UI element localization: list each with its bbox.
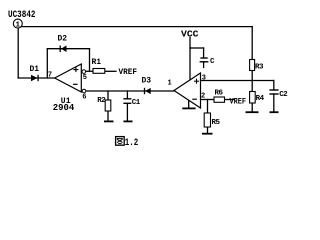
resistor R6 [214,89,225,102]
svg-text:R4: R4 [256,95,265,103]
wire R5 bottom stub [207,127,209,134]
op-amp U1 triangle [55,64,82,92]
wire C2 bottom stub [273,94,275,112]
ground for R4 [246,111,259,113]
resistor R4 [250,92,265,104]
wire top rail VCC [18,26,252,28]
wire C bottom stub [203,62,205,68]
resistor R5 [204,113,220,127]
wire R3 to pin3 net and R4 [251,71,253,92]
svg-text:C: C [210,58,215,66]
wire C1 top stub [126,91,128,99]
wire C1 bottom stub [126,103,128,120]
wire right vertical rail to R3 [251,27,253,60]
svg-text:3: 3 [202,74,206,82]
resistor R1 [92,58,105,74]
svg-text:R6: R6 [215,89,224,97]
wire feedback top horizontal [47,48,89,50]
svg-text:VREF: VREF [119,67,138,77]
wire D1 input segment [18,77,55,79]
wire R5 top stub [207,100,209,114]
ground for C2 [270,111,279,113]
svg-text:VREF: VREF [230,97,247,106]
svg-text:D1: D1 [30,65,40,74]
capacitor C1 [123,99,140,107]
ground for C1 [124,120,133,122]
svg-text:R5: R5 [212,119,221,127]
wire pin5 to R1 [86,70,93,72]
wire VCC vertical to opamp2 [189,38,191,81]
svg-text:5: 5 [83,74,87,82]
svg-text:R1: R1 [92,58,102,67]
wire feedback right vertical [89,49,91,72]
svg-text:R3: R3 [255,63,264,71]
svg-text:D2: D2 [58,34,68,43]
resistor R2 [97,97,110,111]
svg-text:2: 2 [201,92,205,100]
wire R6 to VREF [225,99,235,101]
svg-text:2904: 2904 [53,103,75,113]
caption figure 1.2 chinese character tu [116,137,125,146]
wire R2 top stub [107,91,109,100]
svg-text:C1: C1 [132,99,141,107]
svg-text:1.2: 1.2 [125,138,139,149]
svg-text:UC3842: UC3842 [8,10,36,21]
wire R2 bottom stub [107,111,109,121]
wire opamp2 VEE stub [188,100,190,108]
ground for R5 [202,133,213,135]
capacitor C [200,58,215,66]
svg-text:6: 6 [82,94,86,102]
wire C2 top stub [273,81,275,91]
wire C branch horizontal [190,47,204,49]
label U1 2904 [53,97,75,113]
svg-text:1: 1 [168,80,172,88]
diode D1 [30,65,40,81]
svg-text:R2: R2 [97,97,106,105]
svg-text:7: 7 [48,72,52,80]
resistor R3 [250,60,264,72]
ground for R2 [104,120,114,122]
node pin1 terminal circled 1 [13,19,22,29]
node pin6 terminal [82,89,86,101]
node pin5 terminal [82,70,87,82]
wire bottom net pin6 to opamp2 output [86,90,174,92]
wire pin3 net horizontal [201,80,274,82]
ground for op-amp U2 [182,107,195,109]
svg-text:D3: D3 [142,76,152,85]
wire pin2 to R6 [201,99,215,101]
wire R1 to VREF [105,70,116,72]
wire R4 bottom stub [251,103,253,112]
op-amp U2 triangle [174,73,201,108]
svg-text:C2: C2 [279,91,288,99]
diode D3 [142,76,152,94]
svg-text:VCC: VCC [181,29,199,39]
wire feedback left vertical [46,49,48,78]
capacitor C2 [269,90,288,99]
svg-text:1: 1 [16,21,21,29]
wire left vertical rail [17,27,19,78]
wire C top stub [203,48,205,58]
diode D2 [58,34,68,52]
